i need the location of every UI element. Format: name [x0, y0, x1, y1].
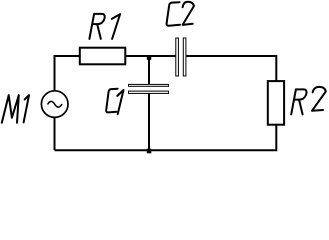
- label R1: [89, 14, 120, 39]
- wire: C2 to right branch: [187, 56, 277, 81]
- wire: R2 bottom + bottom rail: [55, 125, 277, 151]
- node: bottom junction: [147, 149, 152, 154]
- resistor R1: [80, 48, 126, 65]
- label M1: [2, 95, 29, 123]
- wire: R1 to C2: [125, 55, 176, 57]
- label R2: [291, 87, 326, 115]
- wire: middle branch top: [148, 56, 150, 85]
- label C1: [106, 89, 123, 115]
- capacitor C2: [176, 38, 186, 76]
- wire: left branch top + top rail to R1: [55, 56, 80, 90]
- capacitor C1: [129, 84, 169, 93]
- source M1 circle: [41, 91, 68, 118]
- label C2: [167, 2, 194, 26]
- wire: middle branch bottom: [148, 94, 150, 151]
- node: top junction: [147, 55, 152, 60]
- wire: source bottom to bottom rail: [54, 118, 56, 150]
- source M1 sine wave: [48, 101, 63, 107]
- resistor R2: [268, 81, 284, 125]
